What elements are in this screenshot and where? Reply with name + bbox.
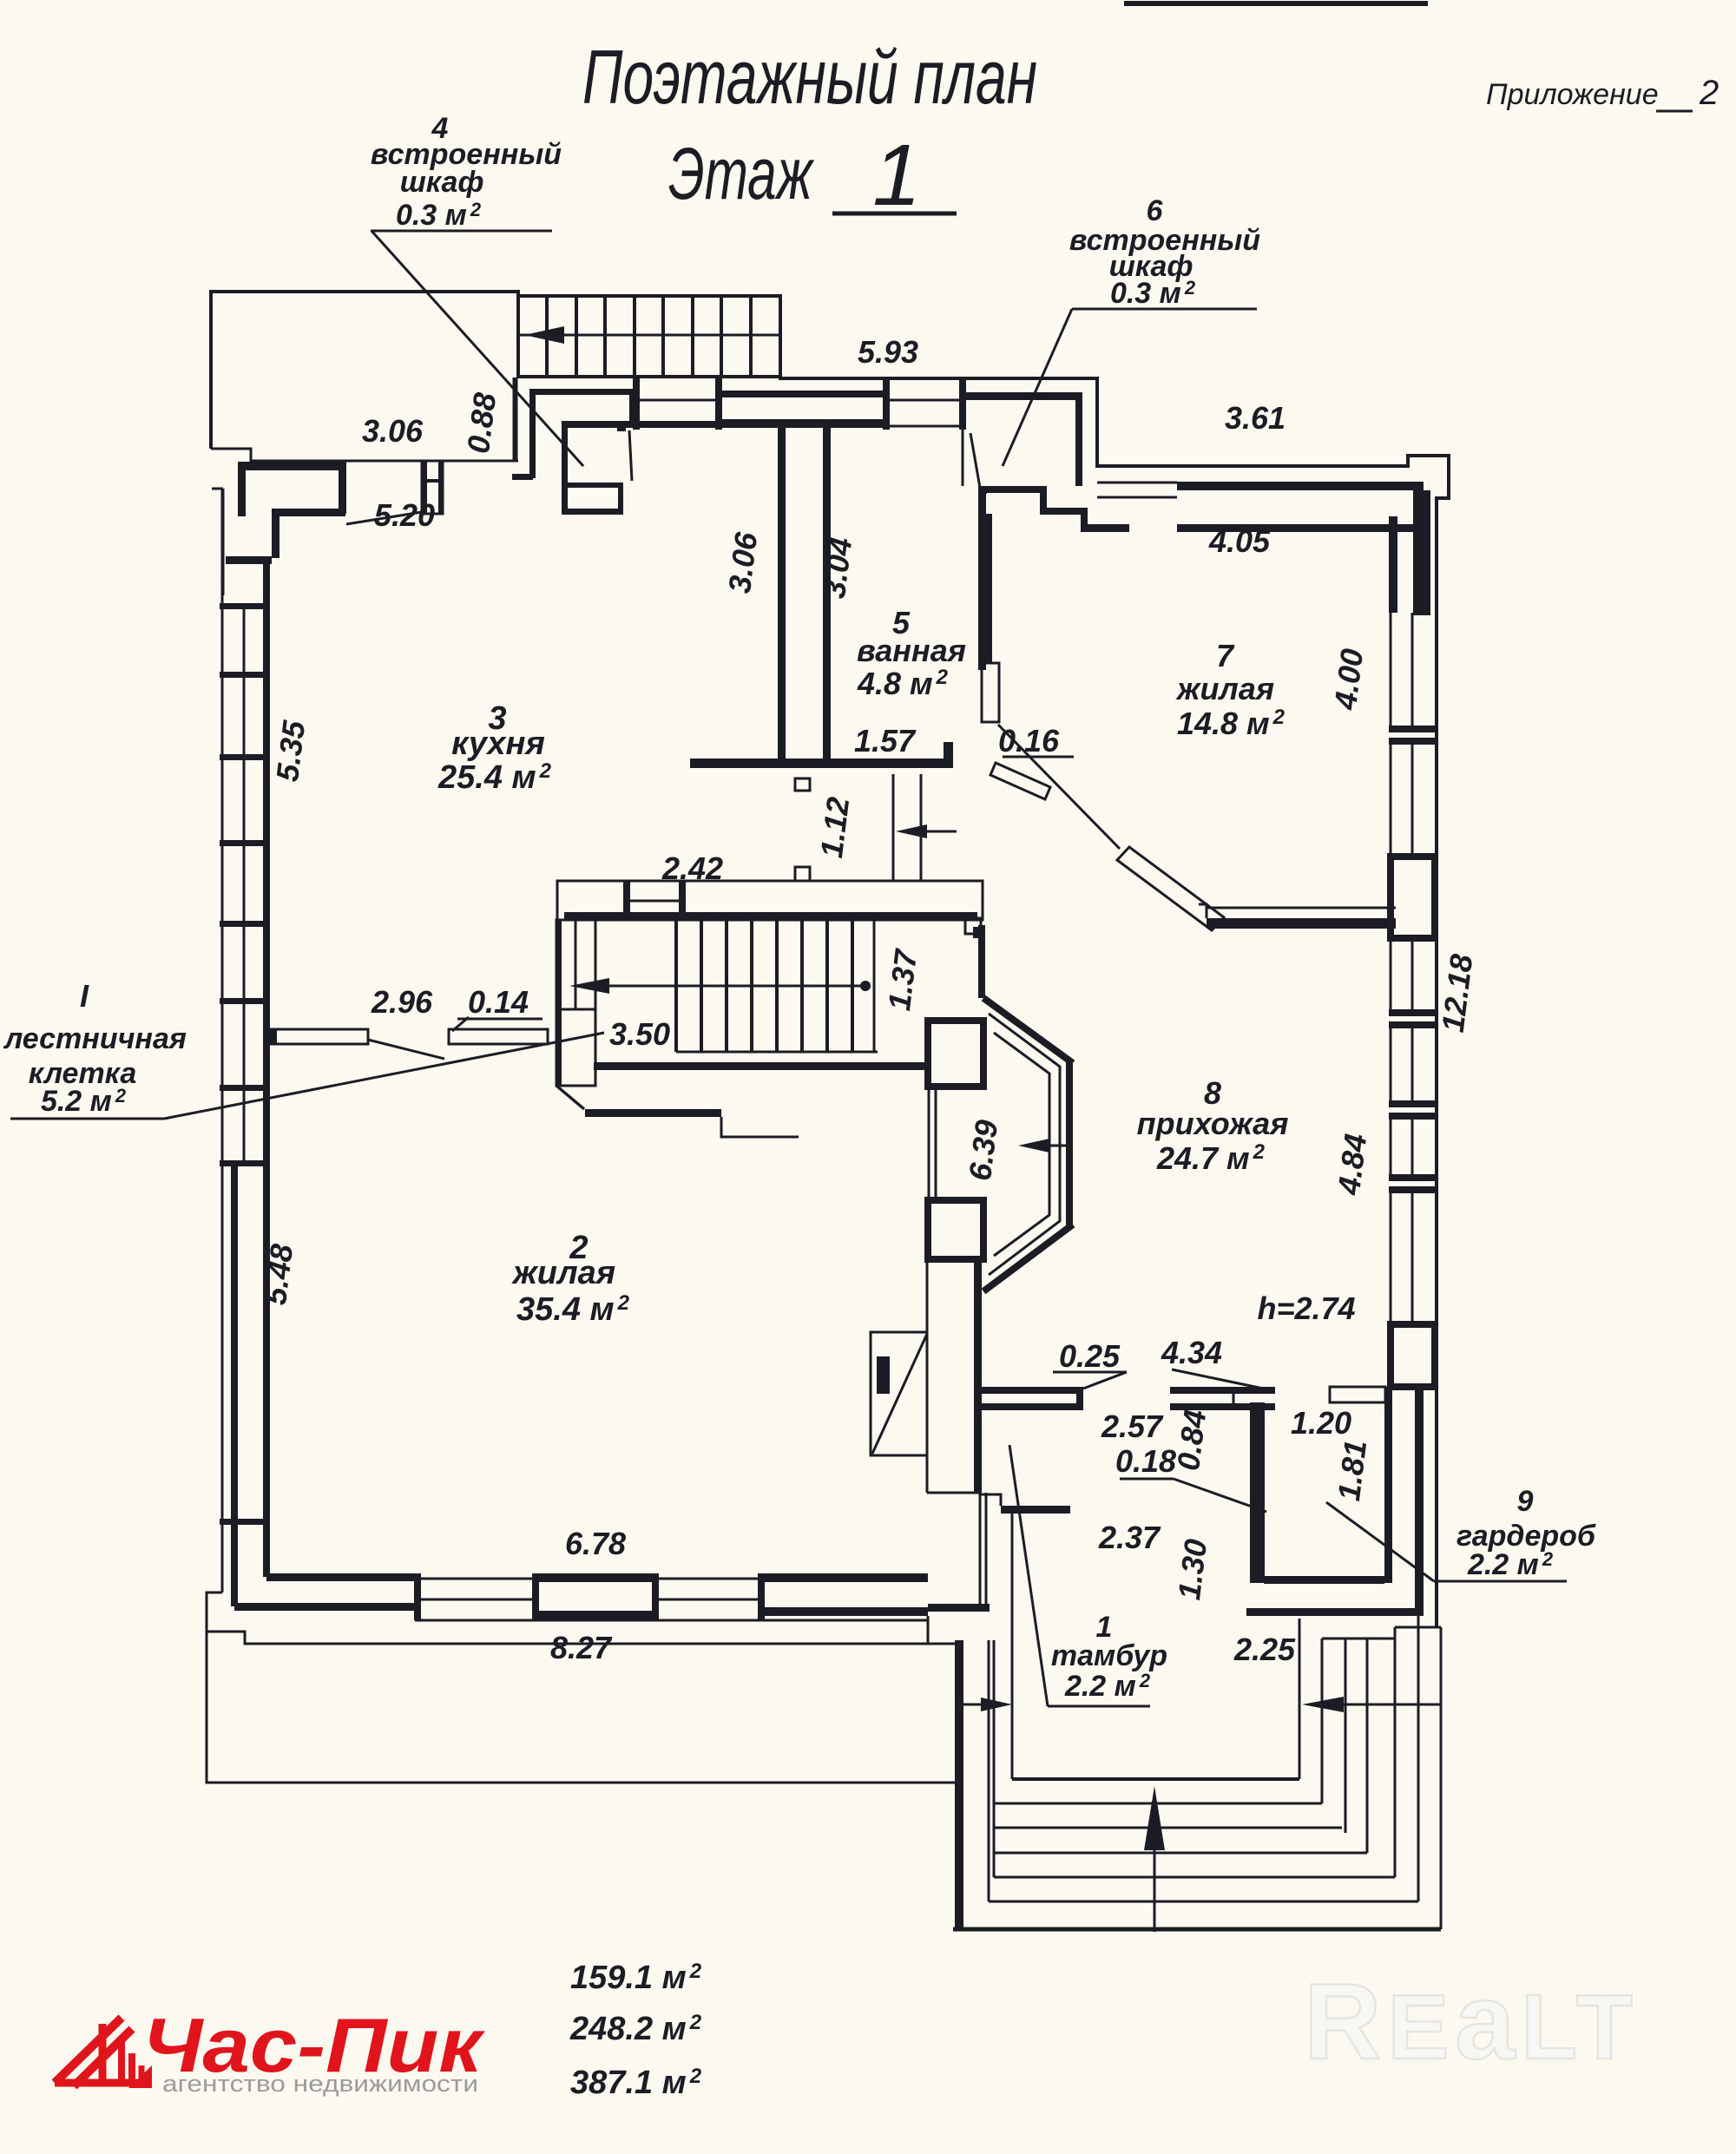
leader 0.25 (1083, 1372, 1127, 1389)
svg-text:2.37: 2.37 (1098, 1520, 1161, 1555)
wall step v1 (1040, 486, 1047, 515)
wall: closet9 east (1384, 1387, 1392, 1583)
room7 south wall thin (1207, 907, 1396, 910)
svg-text:387.1 м2: 387.1 м2 (570, 2065, 702, 2101)
svg-text:0.25: 0.25 (1059, 1338, 1121, 1374)
fireplace black rect (877, 1356, 890, 1394)
wall: room2-hall thick (974, 1259, 982, 1493)
corridor west line 2 (513, 378, 516, 461)
svg-text:8.27: 8.27 (550, 1630, 613, 1665)
svg-text:1.81: 1.81 (1331, 1438, 1373, 1503)
wall: bathroom east (978, 492, 986, 670)
window line2 left of room7 north (1097, 496, 1177, 499)
wall: kitchen/bath west leaf (778, 424, 786, 762)
corridor112 west line (892, 774, 895, 881)
entry arrow right head (1302, 1697, 1344, 1712)
porch step line 2135 (994, 1852, 1367, 1855)
wall: kitchen inner bar D (272, 509, 345, 516)
room2-hall wall west thin (926, 1259, 929, 1493)
stair tread i8 (851, 920, 854, 1052)
porch top connector2 (1322, 1638, 1395, 1640)
stair tread i2 (700, 920, 703, 1052)
stair tread t3 (603, 296, 607, 377)
wall: bay east vertical (1066, 1060, 1073, 1228)
underline room9 (1434, 1580, 1567, 1583)
hall wall bottom connector (927, 1492, 980, 1494)
right window1 inner (1390, 613, 1392, 726)
svg-text:1.20: 1.20 (1291, 1405, 1351, 1441)
wall: bay diagonal lower (983, 1225, 1073, 1291)
room7 south-west step (1199, 904, 1207, 918)
leader stairwell (164, 1033, 604, 1119)
corridor112 east line (920, 774, 923, 881)
outer wall top and right (780, 296, 1449, 1627)
wall: closet4 west (529, 389, 536, 478)
svg-text:кухня: кухня (451, 726, 545, 762)
wall: room7 west (981, 514, 992, 663)
entry arrow up tail (1154, 1849, 1156, 1932)
pier thick edge (422, 461, 427, 514)
underline vestibule label (1048, 1705, 1150, 1708)
left wall divider y1061 (220, 921, 270, 927)
bottom window1 bottom (536, 1611, 659, 1619)
right sill a2 (1389, 738, 1437, 745)
svg-text:3.06: 3.06 (362, 413, 424, 449)
stub step lines (721, 1117, 799, 1137)
bottom window2 top (761, 1573, 928, 1582)
stair west wall mid line (575, 920, 577, 1009)
stub cap (270, 1029, 277, 1044)
leader 0.18 (1174, 1479, 1266, 1512)
porch step right 1660 (1440, 1627, 1443, 1929)
stair arrow line (608, 985, 865, 988)
svg-text:лестничная: лестничная (3, 1022, 187, 1055)
pier mid line (422, 479, 443, 483)
outer left face upper (222, 489, 225, 595)
svg-text:Приложение: Приложение (1486, 78, 1659, 111)
right window4 mid (1411, 1120, 1414, 1174)
porch step right 1634 (1417, 1616, 1420, 1901)
pier B bay (928, 1200, 983, 1259)
wall: right pier 1 (1389, 516, 1397, 613)
wall: kitchen/bath north (562, 421, 883, 428)
right window5 mid (1411, 1193, 1414, 1324)
scan artifact line top edge (1124, 1, 1428, 6)
porch step left a (988, 1640, 990, 1901)
bay window west line2 (935, 1087, 937, 1200)
svg-text:159.1 м2: 159.1 м2 (570, 1960, 702, 1996)
wall: bay north vertical (978, 925, 985, 998)
door jamb notch bathroom (944, 742, 953, 759)
underline 0.14 (457, 1018, 542, 1021)
hinge square closet6 (978, 486, 987, 494)
plinth line bottom (207, 1632, 955, 1644)
svg-text:агентство недвижимости: агентство недвижимости (162, 2071, 478, 2097)
outer step small (212, 488, 223, 490)
wall: closet6 east (1075, 392, 1082, 486)
corridor arrow tail (924, 831, 957, 833)
terrace outline bottom-left (207, 1593, 955, 1783)
svg-text:0.3 м2: 0.3 м2 (396, 199, 482, 232)
outer wall left face (221, 489, 224, 1593)
wall: closet9 south outer (1246, 1608, 1418, 1616)
svg-text:4.8 м2: 4.8 м2 (857, 666, 949, 701)
right window2 inner (1390, 745, 1392, 857)
wall: left mid thick lower (231, 1164, 238, 1606)
svg-text:2.42: 2.42 (661, 850, 723, 886)
pier inner line b (890, 425, 959, 428)
stair west wall box (556, 920, 595, 1086)
stair bottom thin (676, 1051, 878, 1054)
window cap a (633, 378, 640, 430)
right pier cell inner (1390, 1028, 1392, 1100)
entry arrow right tail (1341, 1704, 1441, 1706)
right sill c1 (1389, 1100, 1437, 1107)
bottom pier mid b (659, 1599, 758, 1601)
leader line closet6 (1003, 309, 1072, 466)
wall: closet4 east (629, 389, 636, 427)
stair tread t7 (720, 296, 723, 377)
left wall divider y968 (220, 840, 270, 846)
wall: kitchen corner bar E (226, 556, 272, 564)
porch step right 1550 (1345, 1638, 1347, 1833)
right window2 mid (1411, 745, 1414, 857)
window cap d (959, 378, 966, 430)
wall: low stub south of stairs (585, 1109, 721, 1117)
stair sw diagonal cut (556, 1086, 584, 1109)
bay window west line1 (928, 1087, 930, 1200)
stair tread t6 (691, 296, 694, 377)
wall: room7 north inner thick (1177, 524, 1413, 532)
leader 0.14 (452, 1017, 469, 1031)
stair direction arrow head (524, 326, 564, 344)
wall stub 0.14 (449, 1029, 548, 1044)
svg-text:3.06: 3.06 (721, 529, 764, 595)
bay arrow tail (1047, 1145, 1069, 1147)
stair west wall divider (556, 1008, 595, 1011)
svg-text:4.34: 4.34 (1161, 1335, 1222, 1370)
right window4 inner (1390, 1120, 1392, 1174)
stair west wall thick edge (556, 920, 562, 1086)
porch step right 1523 (1321, 1638, 1324, 1803)
svg-text:2.96: 2.96 (371, 984, 433, 1020)
stair tread t8 (749, 296, 753, 377)
underscore after Приложение (1656, 110, 1693, 113)
vestibule east line (1299, 1619, 1301, 1779)
wall: porch west (955, 1640, 963, 1929)
svg-text:6.39: 6.39 (962, 1118, 1004, 1183)
wall: kitchen entry west (562, 421, 568, 514)
svg-text:2.2 м2: 2.2 м2 (1064, 1670, 1151, 1703)
svg-text:4.05: 4.05 (1208, 523, 1271, 559)
svg-text:ванная: ванная (857, 633, 966, 668)
right pier block 1 (1391, 857, 1435, 938)
underline under floor number (832, 212, 957, 216)
bottom step line (927, 1616, 930, 1644)
wall: tee below room2 wall (928, 1604, 990, 1612)
porch step line 2191 (989, 1901, 1418, 1903)
wall: closet6 north (966, 392, 1082, 400)
pier mid line a (640, 399, 715, 402)
bay inner thin line 2 (989, 1014, 1060, 1275)
fireplace diagonal (872, 1334, 927, 1454)
svg-text:2.57: 2.57 (1101, 1409, 1164, 1444)
window cap b (715, 378, 722, 430)
wall: kitchen west inner bar C (272, 509, 279, 558)
stair hall north band (557, 881, 983, 920)
kitchen door leaf (629, 430, 632, 481)
right window3 inner (1390, 938, 1392, 1009)
svg-text:I: I (80, 978, 89, 1014)
room7 chamfer line (998, 725, 1120, 849)
left wall divider y1750 (220, 1519, 270, 1525)
svg-text:2.25: 2.25 (1233, 1632, 1296, 1667)
bottom pier top a (421, 1578, 532, 1580)
wall: kitchen entry box east (618, 483, 623, 515)
svg-text:5.93: 5.93 (858, 334, 918, 370)
wall: kitchen west bar B (238, 462, 246, 516)
svg-text:3.04: 3.04 (816, 535, 858, 601)
bottom cap c (652, 1573, 659, 1620)
room7 door sidelight (982, 663, 999, 722)
porch top connector (1395, 1626, 1441, 1629)
wall: kitchen/bath east leaf (823, 424, 831, 762)
wall: room2 south inner (266, 1573, 417, 1581)
svg-text:h=2.74: h=2.74 (1257, 1290, 1355, 1326)
svg-text:7: 7 (1216, 638, 1235, 673)
right sill c2 (1389, 1113, 1437, 1120)
wall: closet9 north top (1170, 1387, 1275, 1394)
wall: hall south stub top (982, 1387, 1083, 1394)
underline 0.25 (1053, 1371, 1127, 1374)
svg-text:5.35: 5.35 (269, 718, 312, 784)
closet6 west thin (962, 430, 964, 486)
stub east cap (1076, 1387, 1083, 1410)
svg-text:4.00: 4.00 (1327, 647, 1370, 713)
svg-text:4.84: 4.84 (1331, 1132, 1373, 1198)
right sill a1 (1389, 726, 1437, 732)
outer wall top-left block (211, 292, 518, 449)
right window5 inner (1390, 1193, 1392, 1324)
stair tread t5 (661, 296, 665, 377)
svg-text:6.78: 6.78 (565, 1526, 626, 1561)
svg-text:24.7 м2: 24.7 м2 (1156, 1140, 1266, 1176)
right sill b2 (1389, 1021, 1437, 1028)
stair tread i1 (674, 920, 678, 1052)
svg-text:0.84: 0.84 (1170, 1408, 1213, 1473)
wall: closet4 north (529, 389, 634, 395)
svg-text:0.18: 0.18 (1115, 1443, 1176, 1479)
bottom outer thin (415, 1619, 928, 1622)
svg-text:1.30: 1.30 (1171, 1537, 1213, 1602)
pier square a (795, 778, 810, 791)
bottom cap a (414, 1573, 421, 1620)
svg-text:жилая: жилая (1175, 671, 1274, 706)
porch step right 1575 (1366, 1638, 1369, 1853)
bay arrow head (1018, 1139, 1049, 1153)
bay inner thin line (994, 1033, 1049, 1256)
stair mid line (518, 334, 780, 337)
wall: bathroom south (690, 758, 953, 768)
svg-text:5.20: 5.20 (374, 497, 435, 533)
fireplace box (871, 1332, 927, 1455)
svg-text:1.57: 1.57 (854, 723, 917, 758)
wall: closet9 west (1250, 1402, 1265, 1583)
pier mid line b (890, 399, 959, 402)
outer step top-left corner (211, 449, 422, 461)
porch step right 1607 (1394, 1627, 1397, 1877)
corridor arrow head (896, 824, 927, 838)
porch bottom outer (953, 1927, 1441, 1932)
svg-text:14.8 м2: 14.8 м2 (1177, 706, 1286, 741)
stair tread i4 (750, 920, 753, 1052)
wall end cap west of kitchen door (339, 461, 346, 514)
vestibule west wall (1011, 1514, 1014, 1779)
white notch stair band east (965, 918, 981, 934)
wall: closet9 north bottom (1170, 1403, 1275, 1410)
svg-text:12.18: 12.18 (1435, 952, 1480, 1034)
svg-text:REaLT: REaLT (1304, 1962, 1639, 2082)
wall: kitchen north-west bar A (238, 462, 345, 470)
closet9 door cell (1330, 1387, 1385, 1402)
underline 0.16 (1003, 756, 1074, 758)
vestibule south line (1012, 1777, 1299, 1781)
porch step line 2163 (994, 1876, 1395, 1879)
wall stub 2.96 (270, 1029, 368, 1044)
left wall divider y869 (220, 754, 270, 760)
porch step line 2078 (994, 1803, 1322, 1805)
entry arrow left tail (958, 1704, 984, 1706)
wall: kitchen entry box top (566, 483, 623, 488)
svg-text:тамбур: тамбур (1051, 1639, 1167, 1672)
leader 4.34 (1172, 1369, 1272, 1390)
entry arrow up head (1144, 1786, 1165, 1850)
svg-text:0.88: 0.88 (460, 391, 503, 456)
bottom pier mid a (421, 1599, 532, 1601)
right sill b1 (1389, 1009, 1437, 1016)
stair tread t4 (633, 296, 636, 377)
porch step left b (993, 1640, 996, 1877)
wall: room7 east (1413, 490, 1430, 615)
stair tread t2 (575, 296, 578, 377)
svg-text:2: 2 (1699, 74, 1719, 112)
svg-text:1.37: 1.37 (881, 946, 924, 1013)
bottom window2 bottom (761, 1607, 928, 1616)
logo triangle (128, 2065, 152, 2088)
pier box kitchen door (422, 461, 443, 514)
svg-text:жилая: жилая (511, 1255, 615, 1291)
left wall divider y1150 (220, 998, 270, 1004)
underline 0.18 (1120, 1478, 1174, 1481)
band divider b (679, 881, 686, 920)
window line left of room7 north (1097, 482, 1177, 484)
band divider a (623, 881, 630, 920)
leader vestibule (1009, 1445, 1048, 1706)
svg-text:шкаф: шкаф (400, 166, 484, 199)
vestibule west line1 (979, 1493, 982, 1604)
stair tread i7 (825, 920, 829, 1052)
leader 5.20 (346, 512, 422, 524)
svg-text:0.14: 0.14 (468, 984, 529, 1020)
svg-text:25.4 м2: 25.4 м2 (437, 759, 552, 796)
wall: hall south stub bottom (982, 1403, 1083, 1410)
wall step h2 (1081, 524, 1129, 532)
underline stairwell (10, 1118, 164, 1120)
leader room9 (1326, 1502, 1434, 1581)
entry arrow left head (981, 1698, 1012, 1711)
wall: room2 south outer (234, 1603, 417, 1611)
room7 chamfer door leaf (1117, 847, 1224, 930)
svg-text:5.48: 5.48 (257, 1242, 299, 1307)
bottom window1 top (536, 1573, 659, 1582)
right window3 mid (1411, 938, 1414, 1009)
wall: closet4 south-west stub (512, 474, 533, 480)
svg-text:9: 9 (1517, 1485, 1534, 1518)
svg-text:2.2 м2: 2.2 м2 (1467, 1548, 1554, 1581)
left wall divider y774 (220, 672, 270, 678)
svg-text:6: 6 (1147, 194, 1164, 227)
wall: stair south thick (594, 1062, 928, 1070)
wall: room7 south thick (1207, 918, 1396, 929)
svg-text:0.16: 0.16 (998, 723, 1060, 758)
black square stair band east (973, 927, 985, 938)
underline closet4 label (371, 230, 552, 233)
stair hall band thick bottom (564, 912, 977, 920)
pier thick edge right (438, 461, 444, 514)
right window1 mid (1411, 613, 1414, 726)
wall: closet9 south inner (1264, 1576, 1384, 1584)
stair tread t1 (545, 296, 549, 377)
left wall divider y1337 (220, 1160, 270, 1166)
bathroom door leaf angled (990, 763, 1050, 799)
svg-text:248.2 м2: 248.2 м2 (569, 2011, 702, 2047)
vestibule west line2 (985, 1493, 988, 1604)
stair arrow dot (860, 981, 871, 991)
svg-text:1: 1 (872, 127, 921, 224)
stair tread i3 (725, 920, 728, 1052)
right pier block 2 (1391, 1324, 1435, 1387)
wall: kitchen entry box bottom (562, 509, 623, 515)
wall step h1 (1040, 508, 1088, 515)
wall: bay diagonal upper (983, 998, 1073, 1063)
window1 top thick (722, 391, 883, 397)
logo icon Час-Пик (55, 2018, 148, 2086)
porch step line 2106 (994, 1827, 1342, 1829)
wall: right below hall (1415, 1387, 1424, 1616)
thin line kitchen top opening (443, 460, 518, 463)
wall: room7 north outer thick (1177, 482, 1424, 490)
stair tread i6 (800, 920, 804, 1052)
svg-text:3.50: 3.50 (609, 1016, 670, 1052)
external stair top block (518, 296, 780, 377)
right sill d2 (1389, 1186, 1437, 1193)
wall: closet6 south (979, 486, 1047, 493)
wall step v2 (1081, 508, 1088, 532)
corridor west line below stairs (516, 378, 518, 461)
closet6 door leaf (970, 433, 980, 488)
stair east line (873, 920, 876, 1052)
svg-text:1.12: 1.12 (813, 795, 856, 860)
stair tread i5 (775, 920, 779, 1052)
bottom pier top b (659, 1578, 758, 1580)
underline closet6 label (1072, 308, 1257, 311)
svg-text:Поэтажный план: Поэтажный план (582, 34, 1037, 120)
right pier cell mid (1411, 1028, 1414, 1100)
stair arrow head (569, 978, 609, 994)
pier square b (795, 867, 810, 881)
vestibule step (980, 1494, 1001, 1506)
bottom cap d (758, 1573, 765, 1620)
